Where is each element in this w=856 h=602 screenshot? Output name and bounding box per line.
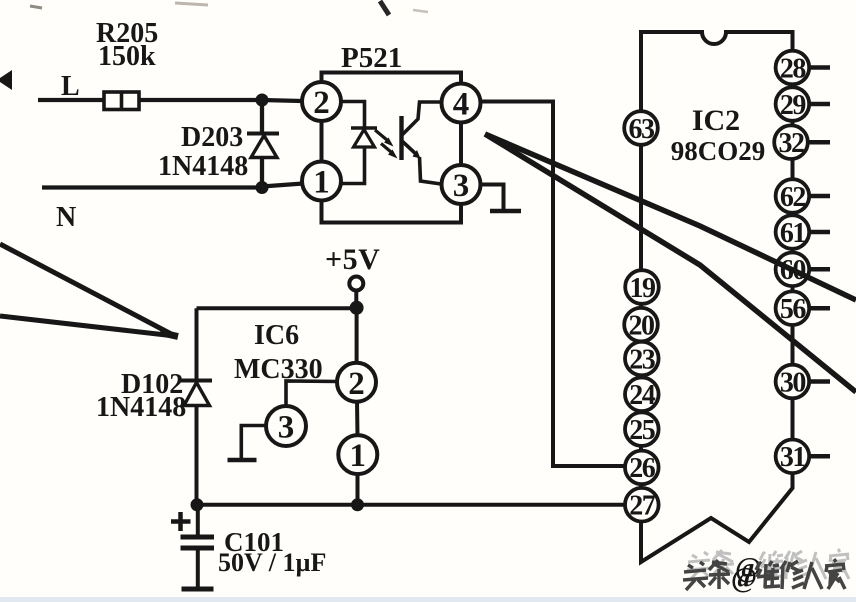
svg-text:IC6: IC6 (254, 320, 299, 351)
pin 1 of P521 (302, 162, 341, 201)
ground at IC6 pin3 (228, 426, 268, 461)
wire IC6 pin3 to pin2 (286, 381, 338, 407)
pin 3 of P521 (442, 165, 481, 204)
svg-text:P521: P521 (341, 42, 402, 74)
node IC6 pin1 bottom (351, 498, 364, 511)
optocoupler P521 box (322, 73, 462, 223)
svg-text:30: 30 (780, 367, 806, 398)
svg-text:32: 32 (779, 128, 805, 159)
node junction L/D203 (256, 94, 269, 107)
phototransistor of P521 (402, 102, 442, 184)
annotation line A (upper diagonal) (485, 134, 856, 300)
svg-text:28: 28 (780, 53, 807, 84)
watermark text (683, 559, 845, 594)
wire N (42, 185, 262, 189)
svg-text:4: 4 (453, 87, 470, 123)
svg-text:N: N (56, 202, 76, 233)
watermark ghost (687, 549, 849, 584)
wire node to P521 pin2 (262, 100, 302, 101)
pin 2 of IC6 (337, 363, 376, 402)
wire L right segment to node (139, 98, 262, 102)
pin 61 of IC2 (776, 215, 830, 249)
svg-text:1: 1 (313, 165, 330, 201)
pin 27 of IC2 (625, 488, 659, 522)
wire bottom rail to IC2 pin27 (197, 503, 625, 507)
svg-text:@: @ (731, 563, 757, 594)
pin 26 of IC2 (625, 451, 659, 485)
node junction N/D203 (256, 181, 269, 194)
pin 28 of IC2 (776, 51, 830, 85)
svg-text:2: 2 (313, 85, 330, 121)
+5V terminal circle (349, 277, 363, 291)
svg-text:24: 24 (629, 380, 656, 411)
svg-text:1N4148: 1N4148 (96, 392, 186, 423)
pin 32 of IC2 (774, 125, 830, 159)
wire D102 top lead (195, 308, 199, 381)
diode D102 (181, 381, 212, 505)
svg-text:19: 19 (630, 273, 656, 304)
annotation wedge bottom-left (0, 244, 178, 337)
pin 1 of IC6 (338, 435, 377, 474)
pin 30 of IC2 (776, 365, 830, 399)
pin 19 of IC2 (625, 270, 659, 304)
wire node to P521 pin1 (262, 184, 303, 187)
wire L left segment (38, 98, 104, 102)
svg-text:1: 1 (350, 438, 367, 474)
svg-text:61: 61 (780, 218, 806, 249)
pin 23 of IC2 (625, 342, 659, 376)
node C101 (191, 498, 204, 511)
bottom scan strip (0, 597, 856, 602)
LED light arrows (375, 130, 398, 159)
scan smudge top (30, 1, 428, 15)
svg-text:56: 56 (780, 294, 807, 325)
LED inner wiring of P521 (340, 102, 365, 184)
node +5V (350, 301, 364, 315)
svg-text:3: 3 (278, 410, 295, 446)
pin 56 of IC2 (776, 291, 830, 325)
LED diode of P521 (351, 128, 377, 147)
wire +5V to IC6 pin2 (355, 308, 359, 364)
svg-text:3: 3 (453, 168, 470, 204)
pin 24 of IC2 (625, 378, 659, 412)
pin 29 of IC2 (776, 87, 830, 121)
svg-text:50V / 1µF: 50V / 1µF (218, 548, 326, 577)
pin 31 of IC2 (776, 440, 830, 474)
IC2 outline (641, 32, 793, 562)
capacitor C101 (171, 505, 214, 589)
wire +5V to node (354, 291, 358, 305)
svg-text:+5V: +5V (325, 243, 380, 276)
svg-text:L: L (61, 71, 80, 102)
svg-text:1N4148: 1N4148 (158, 151, 248, 182)
svg-text:25: 25 (629, 415, 655, 446)
svg-text:63: 63 (629, 114, 656, 145)
diode D203 (247, 134, 279, 158)
pin 3 of IC6 (266, 406, 306, 446)
svg-text:29: 29 (780, 90, 806, 121)
svg-text:62: 62 (780, 182, 806, 213)
svg-text:150k: 150k (98, 41, 156, 72)
svg-text:31: 31 (780, 442, 806, 473)
wire IC6 pin1 down (356, 474, 360, 505)
svg-text:20: 20 (629, 310, 655, 341)
wire IC6 pin2 to pin1 (355, 401, 360, 436)
wire +5V rail horizontal (197, 306, 357, 310)
pin 2 of P521 (302, 82, 341, 121)
wire pin4 to IC2 pin26 (481, 102, 626, 467)
svg-text:26: 26 (629, 453, 656, 484)
resistor R205 (104, 92, 139, 110)
pin 25 of IC2 (625, 412, 659, 446)
pin 4 of P521 (442, 84, 481, 123)
svg-text:IC2: IC2 (692, 104, 740, 137)
pin 63 of IC2 (624, 111, 658, 145)
wire D203 branch (260, 100, 264, 134)
svg-text:23: 23 (629, 344, 656, 375)
svg-text:27: 27 (629, 491, 656, 522)
pin 20 of IC2 (624, 308, 658, 342)
annotation line B (lower diagonal) (485, 134, 856, 392)
svg-text:D203: D203 (181, 122, 243, 153)
svg-text:2: 2 (348, 366, 365, 402)
pin 60 of IC2 (776, 252, 830, 286)
svg-text:98CO29: 98CO29 (671, 136, 766, 166)
ground at P521 pin3 (481, 185, 522, 212)
pin 62 of IC2 (776, 179, 830, 213)
arrowhead pointing left at edge of L wire (0, 70, 12, 90)
